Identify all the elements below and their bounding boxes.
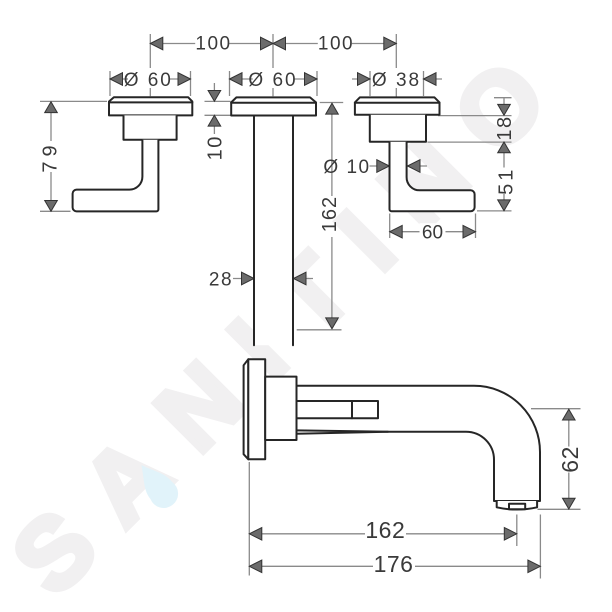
svg-text:162: 162 [319,196,341,232]
svg-text:79: 79 [39,140,61,172]
svg-text:18: 18 [494,115,516,140]
svg-text:60: 60 [422,223,443,244]
svg-text:100: 100 [195,33,231,54]
svg-text:Ø 60: Ø 60 [124,70,173,91]
svg-text:28: 28 [209,269,233,290]
svg-text:51: 51 [495,167,517,195]
svg-text:Ø 10: Ø 10 [323,157,370,178]
svg-text:Ø 38: Ø 38 [372,70,421,91]
svg-text:10: 10 [204,135,226,160]
svg-text:162: 162 [365,517,405,543]
svg-text:176: 176 [374,551,414,577]
svg-text:Ø 60: Ø 60 [248,70,297,91]
svg-text:62: 62 [557,446,583,473]
svg-text:100: 100 [318,33,354,54]
